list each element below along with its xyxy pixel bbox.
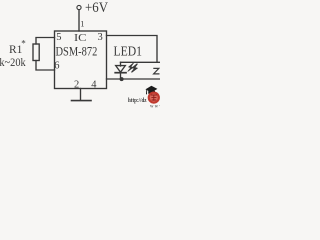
LED2 flash arrow (cut off at edge) <box>153 68 159 74</box>
wire bottom bus <box>107 78 161 80</box>
svg-text:http://dz: http://dz <box>128 98 147 104</box>
IC U1 DSM-872 box <box>55 31 107 89</box>
svg-text:1: 1 <box>80 19 84 29</box>
wire LED anode lead <box>120 62 122 66</box>
svg-text:2k~20k: 2k~20k <box>0 57 26 69</box>
wire resistor bottom to pin 6 <box>36 61 55 71</box>
svg-text:3: 3 <box>98 32 103 43</box>
wire pin 3 to LED anode rail <box>107 36 158 63</box>
watermark: red seal <box>148 92 160 104</box>
svg-text:*: * <box>21 39 26 49</box>
svg-text:DSM-872: DSM-872 <box>56 43 98 58</box>
wire pin 5 to resistor top <box>36 38 55 45</box>
LED1 triangle <box>116 66 126 73</box>
resistor R1 <box>33 44 39 61</box>
svg-text:4: 4 <box>91 79 97 90</box>
ground <box>72 100 92 102</box>
watermark: logo graduation cap <box>145 86 157 93</box>
LED1 flash arrow 2 <box>132 64 138 73</box>
+6V terminal circle <box>77 5 81 9</box>
wire +6V to pin 1 <box>78 10 80 31</box>
svg-text:2: 2 <box>74 79 79 90</box>
wire LED cathode lead <box>120 73 122 79</box>
svg-text:w w w: w w w <box>150 105 160 110</box>
svg-text:LED1: LED1 <box>114 45 143 60</box>
node junction dot on bottom bus <box>120 77 124 81</box>
wire LED top rail <box>121 61 161 63</box>
svg-text:+6V: +6V <box>85 0 108 16</box>
svg-text:IC: IC <box>74 32 87 44</box>
svg-text:5: 5 <box>56 32 61 43</box>
svg-text:6: 6 <box>54 61 59 72</box>
LED1 cathode bar <box>115 72 126 74</box>
wire pin 2 to ground <box>80 89 82 101</box>
LED1 flash arrow 1 <box>128 63 134 72</box>
background <box>0 0 160 110</box>
